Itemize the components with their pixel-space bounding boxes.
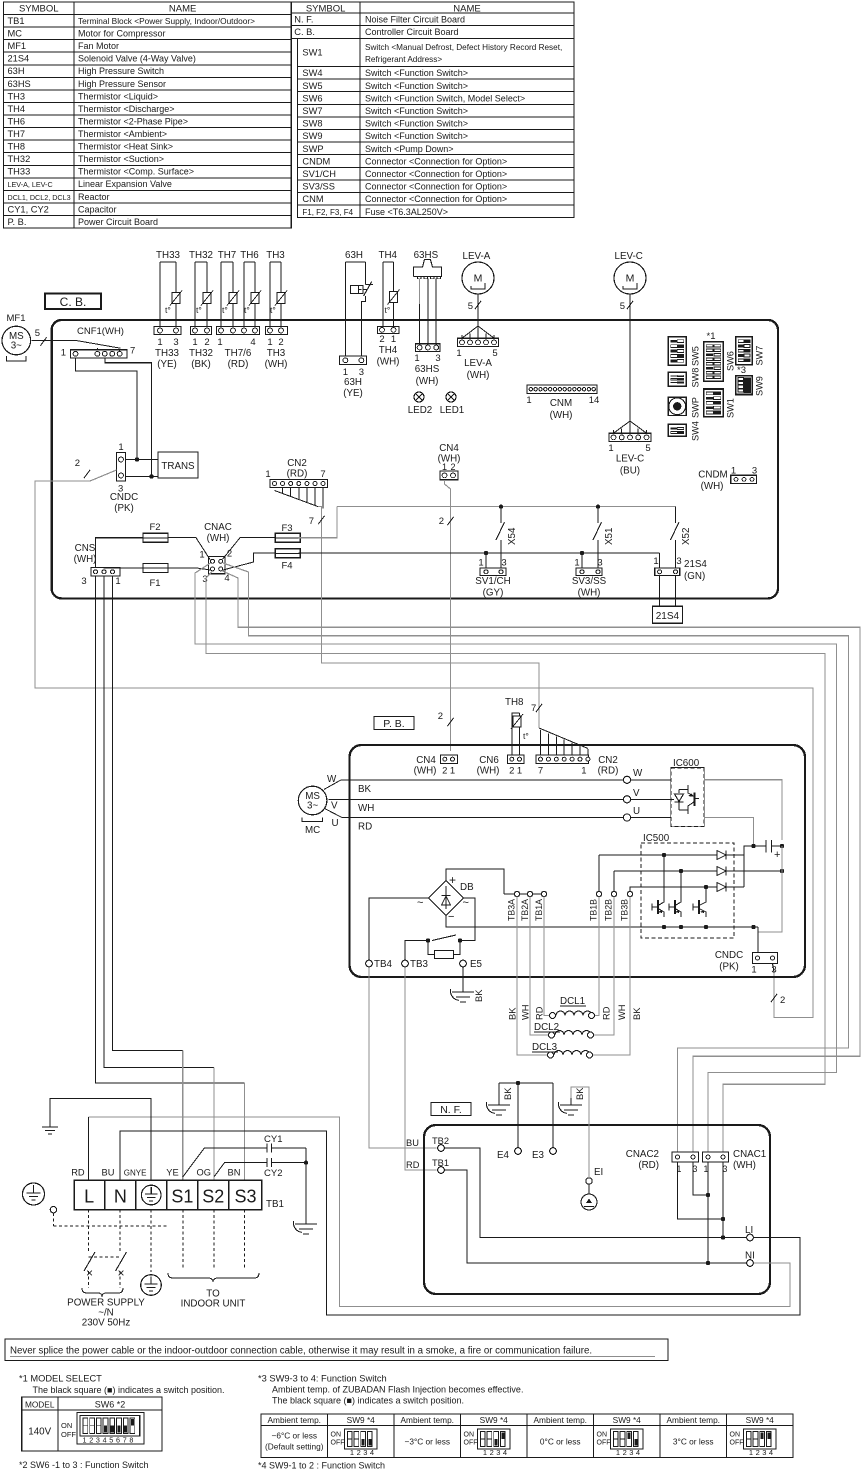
relay contact X52	[675, 507, 677, 523]
wire MC phase U	[325, 809, 623, 818]
svg-text:4: 4	[103, 1436, 107, 1445]
svg-text:TRANS: TRANS	[161, 461, 195, 472]
svg-text:Thermistor <Comp. Surface>: Thermistor <Comp. Surface>	[78, 167, 194, 177]
svg-text:RD: RD	[535, 1006, 545, 1020]
wire cap right down to CNDC node	[758, 846, 782, 932]
svg-text:WH: WH	[521, 1005, 531, 1021]
dashed supply N	[119, 1210, 121, 1253]
svg-text:SWP: SWP	[302, 144, 323, 154]
wire LI out to terminal L	[120, 1131, 800, 1315]
wire TB1B rail with diode	[598, 855, 600, 894]
svg-text:7: 7	[538, 766, 543, 777]
solenoid valve 21S4 box	[659, 576, 661, 607]
LED1 indicator	[446, 392, 456, 402]
push switch SWP	[668, 397, 686, 415]
svg-text:3: 3	[81, 576, 86, 587]
svg-text:SW5: SW5	[691, 346, 701, 366]
svg-text:CN4: CN4	[439, 443, 459, 454]
DIP switch SW5	[668, 337, 686, 366]
relay contact X51	[597, 507, 599, 523]
svg-text:(YE): (YE)	[157, 359, 177, 370]
svg-text:1: 1	[608, 443, 613, 454]
brace to indoor unit	[168, 1273, 259, 1282]
svg-text:TB3A: TB3A	[507, 899, 517, 921]
wires CNS to fuses F1 F2	[96, 538, 144, 568]
wire diode outputs to smoothing cap	[744, 846, 762, 887]
svg-text:(PK): (PK)	[719, 962, 739, 973]
svg-text:CNAC1: CNAC1	[733, 1149, 766, 1160]
svg-text:U: U	[332, 818, 339, 829]
svg-text:SW9 *4: SW9 *4	[613, 1415, 642, 1425]
svg-text:YE: YE	[166, 1168, 178, 1178]
svg-text:High Pressure Sensor: High Pressure Sensor	[78, 79, 166, 89]
svg-text:(GN): (GN)	[684, 571, 705, 582]
svg-text:ON: ON	[730, 1432, 741, 1439]
svg-text:TH7: TH7	[218, 250, 237, 261]
node U	[623, 814, 630, 821]
svg-text:3: 3	[96, 1436, 100, 1445]
wire CN4 2-core down to P.B. CN4	[445, 480, 451, 751]
svg-text:Thermistor <Suction>: Thermistor <Suction>	[78, 154, 164, 164]
smoothing capacitor with polarity	[751, 844, 755, 848]
svg-text:SW8: SW8	[691, 368, 701, 388]
svg-text:TB3B: TB3B	[620, 899, 630, 921]
svg-text:1: 1	[83, 1436, 87, 1445]
svg-text:CNM: CNM	[550, 398, 572, 409]
brace power supply	[82, 1288, 123, 1297]
svg-text:N. F.: N. F.	[440, 1104, 462, 1116]
svg-text:Thermistor <Liquid>: Thermistor <Liquid>	[78, 91, 158, 101]
svg-text:1: 1	[350, 1448, 354, 1457]
svg-text:INDOOR UNIT: INDOOR UNIT	[181, 1299, 246, 1310]
svg-text:L: L	[84, 1187, 94, 1207]
terminal TB2A	[527, 891, 532, 896]
svg-text:Never splice the power cable o: Never splice the power cable or the indo…	[10, 1346, 592, 1357]
svg-text:LEV-C: LEV-C	[616, 454, 644, 465]
wire CNS three cores to TB1 S1 S2 S3	[113, 576, 183, 1050]
svg-text:V: V	[331, 801, 338, 812]
transformer TRANS	[158, 452, 198, 478]
svg-text:TH6: TH6	[240, 250, 259, 261]
svg-text:CY1: CY1	[264, 1134, 282, 1145]
svg-text:(WH): (WH)	[207, 533, 230, 544]
svg-text:7: 7	[130, 346, 135, 357]
relay contact X54	[500, 507, 502, 523]
svg-text:2: 2	[439, 516, 444, 527]
svg-text:SYMBOL: SYMBOL	[306, 4, 346, 15]
svg-text:Controller Circuit Board: Controller Circuit Board	[365, 27, 459, 37]
svg-text:OG: OG	[197, 1168, 211, 1178]
connector TH3 (WH)	[266, 327, 288, 335]
wire emitter rail to CNDC pin1	[757, 927, 759, 953]
svg-text:2: 2	[509, 766, 514, 777]
svg-text:U: U	[633, 806, 640, 817]
svg-text:SW4: SW4	[302, 68, 322, 78]
svg-text:TB3: TB3	[410, 959, 429, 970]
svg-text:TH4: TH4	[379, 250, 398, 261]
svg-text:LEV-A: LEV-A	[463, 251, 491, 262]
svg-text:E5: E5	[470, 959, 483, 970]
svg-text:63H: 63H	[345, 250, 363, 261]
svg-text:1: 1	[115, 576, 120, 587]
svg-text:5: 5	[620, 301, 625, 312]
svg-text:SV3/SS: SV3/SS	[572, 576, 607, 587]
wire CNDC to TRANS with junction dots	[126, 459, 159, 461]
svg-text:SW9: SW9	[755, 376, 765, 396]
wire V into IC600	[631, 798, 674, 800]
svg-text:5: 5	[492, 348, 497, 359]
svg-text:SV1/CH: SV1/CH	[302, 169, 336, 179]
wire relay to TB3	[405, 941, 428, 961]
wire DB left AC to TB4	[369, 898, 429, 960]
svg-text:SYMBOL: SYMBOL	[19, 4, 59, 15]
svg-text:ON: ON	[464, 1432, 475, 1439]
svg-text:CN2: CN2	[287, 458, 307, 469]
svg-text:P. B.: P. B.	[8, 217, 27, 227]
wire solenoid switched line from F4	[299, 552, 660, 554]
svg-text:1: 1	[192, 337, 197, 348]
svg-text:(WH): (WH)	[467, 370, 490, 381]
svg-text:MF1: MF1	[8, 41, 27, 51]
NF internal wire TB2 to LI	[445, 1148, 747, 1238]
svg-text:RD: RD	[71, 1168, 85, 1178]
svg-text:ON: ON	[61, 1421, 72, 1430]
svg-text:The black square (■) indicates: The black square (■) indicates a switch …	[272, 1396, 464, 1406]
svg-text:Connector <Connection for Opti: Connector <Connection for Option>	[365, 169, 507, 179]
svg-text:Connector <Connection for Opti: Connector <Connection for Option>	[365, 156, 507, 166]
svg-text:SW7: SW7	[302, 106, 322, 116]
svg-text:1: 1	[217, 337, 222, 348]
svg-text:3: 3	[629, 1448, 633, 1457]
svg-text:Switch <Pump Down>: Switch <Pump Down>	[365, 144, 454, 154]
svg-text:5: 5	[35, 328, 40, 339]
svg-text:Refrigerant Address>: Refrigerant Address>	[365, 55, 442, 64]
svg-text:t°: t°	[196, 305, 202, 315]
svg-text:3: 3	[501, 558, 506, 569]
svg-text:2: 2	[357, 1448, 361, 1457]
svg-text:3°C or less: 3°C or less	[673, 1437, 714, 1447]
svg-text:(BK): (BK)	[191, 359, 211, 370]
svg-text:*2 SW6 -1 to 3 : Function Swi: *2 SW6 -1 to 3 : Function Switch	[19, 1460, 149, 1470]
svg-text:(WH): (WH)	[733, 1160, 756, 1171]
LED2 indicator	[414, 392, 424, 402]
svg-text:V: V	[633, 788, 640, 799]
svg-text:MC: MC	[305, 825, 320, 836]
svg-text:CNDC: CNDC	[110, 492, 138, 503]
svg-text:CY2: CY2	[264, 1168, 282, 1179]
svg-text:(RD): (RD)	[228, 359, 249, 370]
svg-text:(WH): (WH)	[701, 481, 724, 492]
ground for E4 E3	[498, 1083, 500, 1098]
svg-text:WH: WH	[358, 803, 374, 814]
svg-text:1: 1	[751, 965, 756, 976]
legend table right	[291, 2, 574, 25]
wires reactors back up to TB_B	[595, 897, 600, 1016]
terminal TB1B	[596, 891, 601, 896]
svg-text:CN2: CN2	[598, 755, 618, 766]
svg-text:~: ~	[417, 897, 423, 909]
svg-text:1: 1	[199, 550, 204, 561]
svg-text:DCL1, DCL2, DCL3: DCL1, DCL2, DCL3	[8, 193, 71, 202]
svg-text:−3°C or less: −3°C or less	[404, 1437, 450, 1447]
earth wire from TB1 earth terminal to ground	[50, 1099, 151, 1181]
svg-text:S2: S2	[202, 1187, 224, 1207]
svg-text:1: 1	[483, 1448, 487, 1457]
svg-text:2: 2	[204, 337, 209, 348]
svg-text:TH3: TH3	[266, 250, 285, 261]
wire TB3B rail with diode	[630, 887, 642, 891]
svg-text:1: 1	[267, 337, 272, 348]
svg-text:WH: WH	[617, 1005, 627, 1021]
svg-text:1: 1	[157, 337, 162, 348]
svg-text:TH4: TH4	[379, 345, 398, 356]
svg-text:1: 1	[61, 348, 66, 359]
svg-text:1: 1	[749, 1448, 753, 1457]
svg-text:OFF: OFF	[331, 1440, 345, 1447]
power circuit board P.B. outline	[350, 745, 806, 977]
svg-text:BK: BK	[474, 989, 484, 1002]
controller circuit board C.B. outline	[52, 320, 778, 598]
node V	[623, 796, 630, 803]
svg-text:SW9 *4: SW9 *4	[480, 1415, 509, 1425]
svg-text:Connector <Connection for Opti: Connector <Connection for Option>	[365, 194, 507, 204]
svg-text:(GY): (GY)	[483, 588, 504, 599]
svg-text:SW6: SW6	[726, 351, 736, 371]
terminal TB2B	[611, 891, 616, 896]
svg-text:CNM: CNM	[302, 194, 323, 204]
svg-text:OFF: OFF	[61, 1430, 76, 1439]
svg-text:DCL3: DCL3	[532, 1042, 558, 1053]
svg-text:RD: RD	[358, 822, 372, 833]
label box C.B.	[45, 294, 101, 310]
svg-text:ON: ON	[597, 1432, 608, 1439]
earth circle below	[141, 1275, 162, 1296]
svg-text:3: 3	[435, 353, 440, 364]
svg-text:Power Circuit Board: Power Circuit Board	[78, 217, 158, 227]
svg-text:MODEL: MODEL	[25, 1400, 55, 1410]
node W	[623, 776, 630, 783]
svg-text:TH6: TH6	[8, 116, 26, 126]
svg-text:Ambient temp.: Ambient temp.	[667, 1415, 721, 1425]
svg-text:Ambient temp.: Ambient temp.	[401, 1415, 455, 1425]
svg-text:×: ×	[117, 1266, 124, 1280]
svg-text:CN6: CN6	[479, 755, 499, 766]
svg-text:230V 50Hz: 230V 50Hz	[82, 1318, 131, 1329]
svg-text:Connector <Connection for Opti: Connector <Connection for Option>	[365, 182, 507, 192]
svg-text:2: 2	[438, 711, 443, 722]
svg-text:Switch <Function Switch, Model: Switch <Function Switch, Model Select>	[365, 93, 525, 103]
terminal E5 with ground	[460, 960, 467, 967]
svg-text:DCL1: DCL1	[560, 996, 585, 1007]
svg-text:3: 3	[496, 1448, 500, 1457]
noise filter board N.F. outline	[424, 1125, 770, 1294]
svg-text:RD: RD	[602, 1006, 612, 1020]
svg-text:1: 1	[581, 766, 586, 777]
svg-text:E3: E3	[532, 1150, 545, 1161]
svg-text:E4: E4	[497, 1150, 510, 1161]
svg-text:SW9: SW9	[302, 131, 322, 141]
svg-text:CNDC: CNDC	[715, 950, 743, 961]
svg-text:63HS: 63HS	[8, 79, 31, 89]
svg-text:4: 4	[250, 337, 255, 348]
terminal TB4	[366, 960, 373, 967]
DIP switch SW8	[668, 372, 686, 386]
wire CNDC 2-core cable to P.B. CNDC	[35, 470, 813, 1018]
svg-text:Linear Expansion Valve: Linear Expansion Valve	[78, 179, 172, 189]
svg-text:CNS: CNS	[75, 543, 96, 554]
svg-text:TH8: TH8	[505, 697, 524, 708]
wire CN2 fan on P.B.	[539, 728, 588, 749]
svg-text:(RD): (RD)	[598, 766, 619, 777]
svg-text:Switch <Function Switch>: Switch <Function Switch>	[365, 106, 468, 116]
svg-text:SWP: SWP	[691, 397, 701, 418]
svg-text:BK: BK	[575, 1087, 585, 1100]
svg-text:N: N	[114, 1187, 127, 1207]
svg-text:F2: F2	[149, 522, 160, 533]
terminal TB3A	[514, 891, 519, 896]
IGBT Q1 of IC500	[651, 904, 653, 911]
model select table	[22, 1397, 162, 1451]
svg-text:TH7/6: TH7/6	[225, 348, 252, 359]
svg-text:TH3: TH3	[8, 91, 26, 101]
svg-text:5: 5	[109, 1436, 113, 1445]
connector TH33 (YE)	[154, 327, 181, 335]
svg-text:Switch <Function Switch>: Switch <Function Switch>	[365, 81, 468, 91]
svg-text:LEV-A: LEV-A	[464, 358, 492, 369]
svg-text:Fuse <T6.3AL250V>: Fuse <T6.3AL250V>	[365, 207, 448, 217]
svg-text:M: M	[626, 273, 635, 285]
dashed earth drop	[150, 1210, 152, 1272]
svg-text:21S4: 21S4	[8, 54, 30, 64]
wire U through IC600 to cap left	[631, 817, 671, 819]
svg-text:Switch <Function Switch>: Switch <Function Switch>	[365, 119, 468, 129]
svg-text:F4: F4	[281, 561, 292, 572]
svg-text:3: 3	[202, 574, 207, 585]
svg-text:0°C or less: 0°C or less	[540, 1437, 581, 1447]
svg-text:2: 2	[490, 1448, 494, 1457]
svg-text:F3: F3	[281, 523, 292, 534]
svg-text:1: 1	[574, 558, 579, 569]
wire CNF1 pin4 down to TRANS node	[105, 358, 152, 477]
svg-text:Switch <Function Switch>: Switch <Function Switch>	[365, 131, 468, 141]
svg-text:1: 1	[414, 353, 419, 364]
svg-text:C. B.: C. B.	[60, 295, 87, 309]
svg-text:(WH): (WH)	[438, 454, 461, 465]
svg-text:Switch <Function Switch>: Switch <Function Switch>	[365, 68, 468, 78]
svg-text:(RD): (RD)	[287, 469, 308, 480]
svg-text:+: +	[449, 873, 456, 887]
svg-text:GNYE: GNYE	[124, 1169, 147, 1178]
svg-text:W: W	[633, 768, 643, 779]
svg-text:140V: 140V	[28, 1427, 51, 1438]
svg-text:5: 5	[468, 301, 473, 312]
svg-text:4: 4	[503, 1448, 507, 1457]
svg-text:SV1/CH: SV1/CH	[475, 576, 510, 587]
wire CN2 bundle fan to single 7-core wire	[275, 491, 319, 507]
svg-text:LEV-A, LEV-C: LEV-A, LEV-C	[8, 180, 53, 189]
svg-text:2: 2	[75, 458, 80, 469]
dashed earth link	[52, 1213, 54, 1226]
svg-text:3: 3	[676, 556, 681, 567]
svg-text:SW6: SW6	[302, 93, 322, 103]
svg-text:SW5: SW5	[302, 81, 322, 91]
svg-text:Noise Filter Circuit Board: Noise Filter Circuit Board	[365, 14, 465, 24]
svg-text:X51: X51	[604, 528, 615, 545]
svg-text:1: 1	[526, 395, 531, 406]
svg-text:Capacitor: Capacitor	[78, 204, 117, 214]
svg-text:7: 7	[309, 516, 314, 527]
svg-text:3: 3	[762, 1448, 766, 1457]
terminal TB3	[402, 960, 409, 967]
svg-text:Thermistor <2-Phase Pipe>: Thermistor <2-Phase Pipe>	[78, 116, 188, 126]
svg-text:X54: X54	[507, 527, 518, 545]
connector LEV-A (WH) fan-out	[462, 326, 494, 338]
svg-text:*1: *1	[707, 331, 716, 342]
terminal TB1A	[541, 891, 546, 896]
svg-text:RD: RD	[406, 1160, 420, 1170]
inrush relay contact	[458, 938, 462, 942]
svg-text:t°: t°	[270, 305, 276, 315]
wire MC phase V	[328, 798, 623, 800]
DIP switch SW1	[704, 389, 724, 417]
svg-text:4: 4	[636, 1448, 640, 1457]
svg-text:NAME: NAME	[453, 4, 480, 15]
svg-text:Fan Motor: Fan Motor	[78, 41, 119, 51]
svg-text:TB1: TB1	[8, 16, 25, 26]
svg-text:MF1: MF1	[7, 313, 26, 324]
label box N.F.	[431, 1103, 471, 1116]
svg-text:F1, F2, F3, F4: F1, F2, F3, F4	[302, 208, 353, 217]
svg-text:t°: t°	[385, 305, 391, 315]
svg-text:EI: EI	[594, 1167, 603, 1178]
connector TH4 (WH)	[377, 326, 399, 333]
svg-text:TB1B: TB1B	[589, 899, 599, 921]
svg-text:3~: 3~	[11, 341, 22, 352]
svg-text:OFF: OFF	[464, 1440, 478, 1447]
svg-text:(WH): (WH)	[550, 410, 573, 421]
svg-text:5: 5	[645, 443, 650, 454]
svg-text:LED1: LED1	[440, 405, 465, 416]
svg-text:TH33: TH33	[8, 167, 31, 177]
wire MC phase W	[324, 780, 623, 790]
svg-text:1: 1	[450, 766, 455, 777]
svg-text:t°: t°	[244, 305, 250, 315]
svg-text:SW4: SW4	[691, 421, 701, 441]
svg-text:×: ×	[86, 1266, 93, 1280]
svg-text:1: 1	[653, 556, 658, 567]
svg-text:CY1, CY2: CY1, CY2	[8, 204, 49, 214]
svg-text:BK: BK	[503, 1087, 513, 1100]
compressor motor MC	[298, 786, 327, 815]
svg-text:*3 SW9-3 to 4: Function Switc: *3 SW9-3 to 4: Function Switch	[258, 1374, 387, 1384]
svg-text:(WH): (WH)	[578, 588, 601, 599]
svg-text:BK: BK	[508, 1007, 518, 1020]
svg-text:TH3: TH3	[267, 348, 286, 359]
diode bridge DB	[429, 881, 464, 916]
svg-text:S3: S3	[234, 1187, 256, 1207]
svg-text:3: 3	[597, 558, 602, 569]
svg-text:3: 3	[173, 337, 178, 348]
svg-text:TH32: TH32	[189, 250, 213, 261]
ground for CY capacitors	[305, 1217, 307, 1224]
svg-text:TB4: TB4	[374, 959, 393, 970]
terminal E3 with ground	[550, 1148, 557, 1155]
svg-text:63H: 63H	[8, 66, 25, 76]
svg-text:CNDM: CNDM	[302, 156, 330, 166]
svg-text:Ambient temp.: Ambient temp.	[534, 1415, 588, 1425]
svg-text:(WH): (WH)	[477, 766, 500, 777]
terminal TB3B	[627, 891, 632, 896]
